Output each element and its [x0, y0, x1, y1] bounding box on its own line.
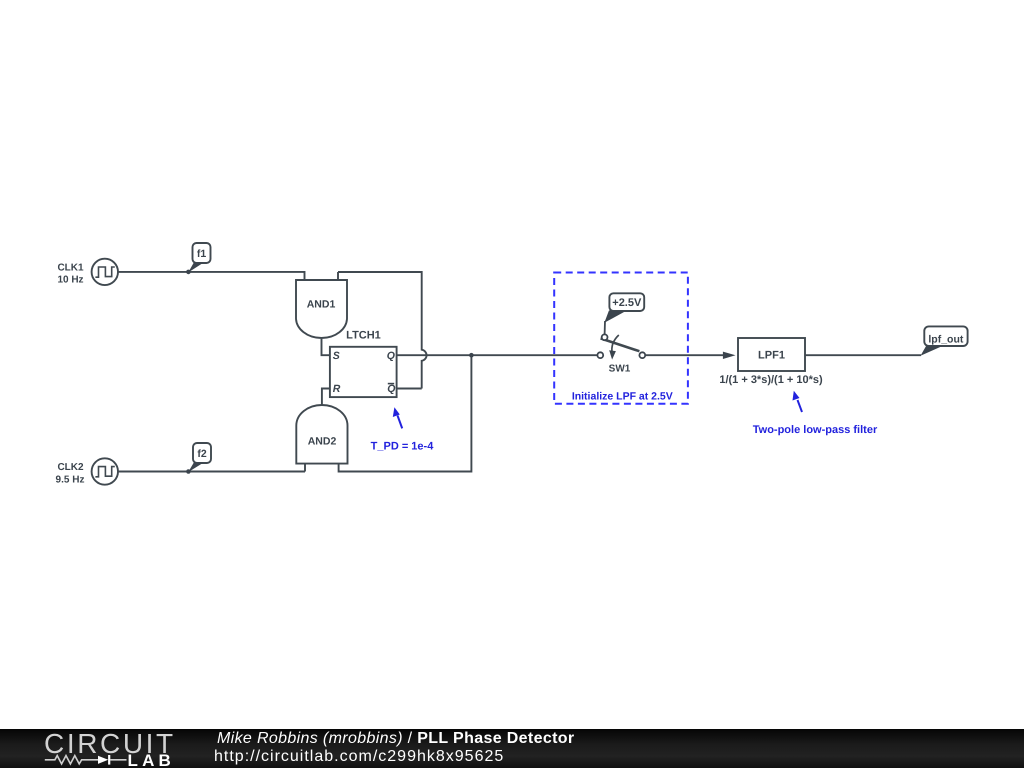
CircuitLab logo resistor-diode glyph and LAB [44, 753, 184, 769]
svg-text:Q: Q [387, 383, 395, 395]
and-gate AND2 [296, 405, 347, 464]
junction dot f2 [186, 469, 191, 474]
svg-text:Two-pole low-pass filter: Two-pole low-pass filter [753, 424, 878, 436]
latch LTCH1 box [330, 347, 397, 397]
flag +2.5V tail [604, 310, 624, 322]
switch SW1 blade [601, 338, 640, 351]
svg-text:CLK2: CLK2 [57, 462, 84, 473]
arrowhead into LPF1 [723, 352, 736, 359]
attribution line 1 [217, 731, 574, 746]
svg-text:10 Hz: 10 Hz [57, 275, 83, 286]
svg-text:LPF1: LPF1 [758, 349, 785, 361]
flag f2 tail [188, 462, 203, 472]
filter block LPF1 box [738, 338, 805, 371]
svg-text:S: S [333, 350, 340, 362]
flag f2 box [193, 443, 211, 463]
clock source CLK2 [92, 458, 118, 484]
clock source CLK1 [92, 259, 118, 285]
wire switch to LPF1 [645, 354, 723, 356]
annotation arrow to LTCH1 [398, 416, 403, 429]
CircuitLab logo text CIRCUIT [44, 730, 176, 758]
svg-text:Q: Q [387, 350, 395, 362]
svg-text:LTCH1: LTCH1 [346, 329, 381, 341]
svg-text:CLK1: CLK1 [57, 262, 84, 273]
wire +2.5V tail to switch top terminal [604, 321, 606, 335]
svg-text:LAB: LAB [128, 753, 176, 769]
switch SW1 terminal circles [597, 334, 645, 358]
annotation arrow to LPF1 [798, 400, 803, 412]
svg-text:9.5 Hz: 9.5 Hz [56, 474, 85, 485]
flag +2.5V box [609, 293, 644, 311]
wire Q output to switch [397, 354, 598, 356]
svg-text:+2.5V: +2.5V [612, 297, 642, 309]
wire AND1 input B stub [337, 272, 339, 280]
flag f1 box [193, 243, 211, 263]
wire CLK2 to AND2 input A [118, 471, 305, 473]
junction dot f1 [186, 270, 191, 275]
svg-text:SW1: SW1 [609, 364, 631, 375]
attribution line 2 [214, 749, 504, 764]
flag lpf_out box [924, 326, 967, 346]
wire CLK1 to AND1 input A [118, 272, 305, 280]
svg-text:Initialize LPF at 2.5V: Initialize LPF at 2.5V [572, 390, 673, 402]
svg-text:f1: f1 [197, 248, 206, 260]
svg-text:1/(1 + 3*s)/(1 + 10*s): 1/(1 + 3*s)/(1 + 10*s) [719, 374, 823, 386]
svg-text:AND1: AND1 [307, 299, 336, 311]
junction node Q-AND2 [469, 353, 474, 358]
annotation box: Initialize LPF at 2.5V [554, 273, 688, 404]
wire Q feedback down to AND2 input B [339, 355, 472, 471]
footer bar [0, 729, 1024, 768]
wire AND2 input A stub [304, 464, 306, 472]
flag f1 tail [188, 262, 203, 272]
svg-text:R: R [333, 383, 341, 395]
and-gate AND1 [296, 280, 347, 338]
wire LPF1 output to lpf_out [805, 354, 921, 356]
flag lpf_out tail [921, 346, 944, 356]
wire AND2 output to R [322, 389, 330, 406]
wire AND1 output to S [322, 339, 330, 355]
svg-text:f2: f2 [197, 448, 206, 460]
switch SW1 motion arc [612, 335, 619, 353]
wire feedback Q-bar to AND1 input B (with hop) [338, 272, 427, 389]
wire Q-bar output stub [397, 388, 422, 390]
svg-text:AND2: AND2 [308, 436, 337, 448]
svg-text:T_PD = 1e-4: T_PD = 1e-4 [371, 440, 435, 452]
svg-text:lpf_out: lpf_out [928, 334, 963, 346]
switch arc arrowhead [609, 350, 616, 359]
